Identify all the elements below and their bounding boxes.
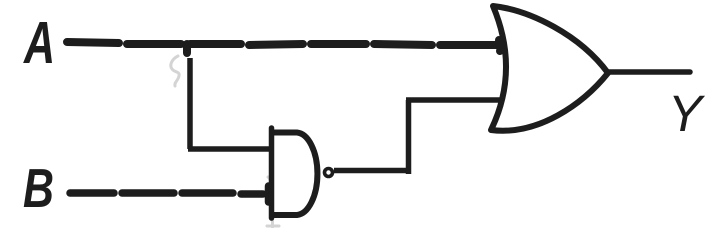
nand gate U1 body [272,128,318,218]
wire A input (segmented horizontal run) [67,42,497,45]
wire A end tick at OR upper input [499,40,501,51]
wire A branch vertical drop [187,58,193,149]
faint pencil smudges (unlabelled artifacts) [171,56,279,227]
node junction where branch taps A wire [183,44,191,53]
svg-text:A: A [22,9,55,75]
or gate U2 body [491,6,608,131]
wire B end tick at NAND lower input [265,186,273,202]
svg-text:Y: Y [668,85,706,142]
svg-text:B: B [23,158,54,219]
nand gate U1 output bubble [325,169,333,177]
wire to OR lower input [406,97,502,103]
wire NAND output vertical riser [406,100,412,174]
wire NAND output horizontal [334,168,411,174]
wire OR output [607,69,690,75]
wire branch to NAND top input [188,146,271,152]
wire B input (segmented horizontal run) [70,193,263,194]
